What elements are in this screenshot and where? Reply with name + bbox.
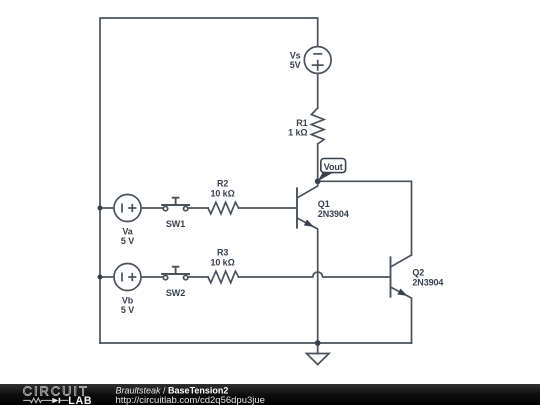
svg-text:Vout: Vout [324,162,343,172]
svg-text:5 V: 5 V [121,305,134,315]
svg-text:R1: R1 [296,118,307,128]
svg-text:Va: Va [122,227,133,237]
svg-text:R2: R2 [217,179,228,189]
svg-text:Vb: Vb [122,296,134,306]
svg-text:2N3904: 2N3904 [412,278,443,288]
svg-text:R3: R3 [217,248,228,258]
svg-text:SW1: SW1 [166,219,185,229]
svg-text:5V: 5V [290,60,301,70]
svg-text:Vs: Vs [290,51,301,61]
svg-text:10 kΩ: 10 kΩ [210,188,234,198]
svg-text:2N3904: 2N3904 [318,209,349,219]
svg-text:10 kΩ: 10 kΩ [210,257,234,267]
svg-text:1 kΩ: 1 kΩ [288,128,307,138]
svg-text:http://circuitlab.com/cd2q56dp: http://circuitlab.com/cd2q56dpu3jue [116,395,265,405]
svg-text:LAB: LAB [68,395,92,405]
svg-text:SW2: SW2 [166,288,185,298]
svg-text:Q1: Q1 [318,199,330,209]
svg-text:5 V: 5 V [121,236,134,246]
svg-text:Q2: Q2 [412,268,424,278]
